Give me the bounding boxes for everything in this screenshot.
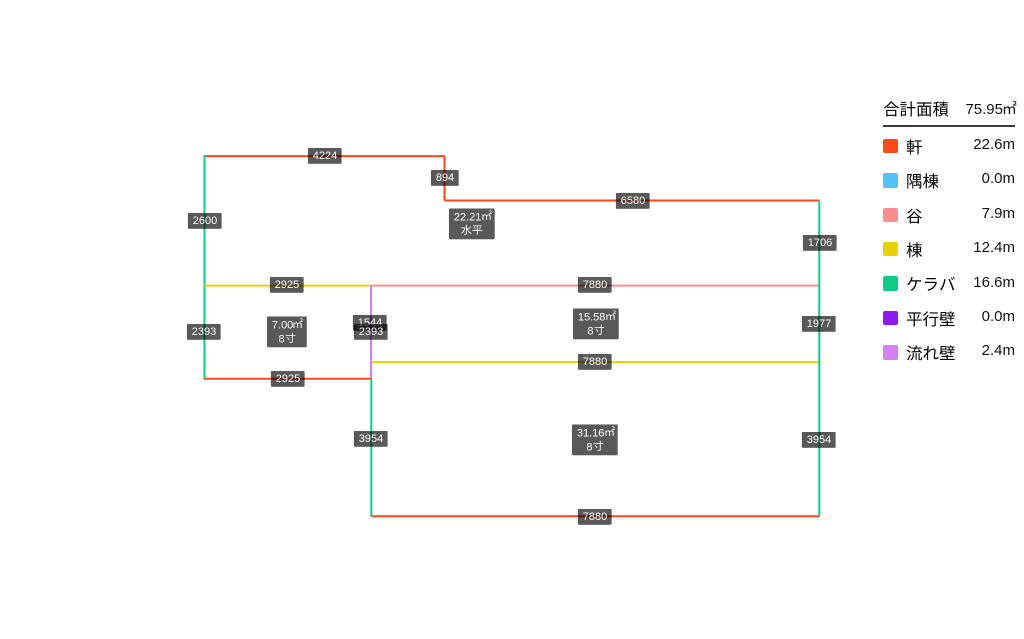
wire valley 7880 <box>371 285 819 287</box>
legend header title 合計面積 (total area) <box>883 101 949 120</box>
legend value 流れ壁 2.4m <box>982 342 1015 359</box>
label 894 <box>431 170 459 186</box>
wire flow-wall 1544 <box>370 286 372 379</box>
legend swatch 隅棟 <box>883 173 898 188</box>
label area 22.21 horizontal <box>449 208 495 239</box>
legend value 谷 7.9m <box>982 205 1015 222</box>
label area 31.16 8-sun <box>572 424 618 455</box>
hidden glyph outline definitions (CJK text rendered as vector paths) <box>0 0 1 1</box>
label 7880 ridge <box>578 353 612 369</box>
legend swatch 流れ壁 <box>883 345 898 360</box>
label 7880 bottom <box>578 509 612 525</box>
legend label 平行壁 <box>906 311 956 330</box>
label 4224 <box>308 148 342 164</box>
label 1544 <box>353 315 387 331</box>
legend value 隅棟 0.0m <box>982 170 1015 187</box>
wire gable mid 3954 <box>370 379 372 517</box>
legend label 軒 <box>906 139 923 158</box>
label 2393 mid <box>353 324 387 340</box>
legend divider <box>883 125 1015 127</box>
legend swatch 谷 <box>883 208 898 223</box>
wire eave top-left 4224 <box>205 155 445 157</box>
legend label 谷 <box>906 208 923 227</box>
label area 7.00 8-sun <box>267 316 307 347</box>
label 6580 <box>616 193 650 209</box>
wire ridge 2925 <box>205 285 372 287</box>
wire ridge 7880 <box>372 361 819 363</box>
wire eave 2925 lower-left <box>205 378 372 380</box>
label 2925 lower <box>270 370 304 386</box>
label 2393 left <box>187 324 221 340</box>
legend value 平行壁 0.0m <box>982 308 1015 325</box>
label 1977 <box>802 316 836 332</box>
label 1706 <box>802 235 836 251</box>
label 2925 upper <box>270 277 304 293</box>
wire gable right 1706+1977+3954 <box>818 201 820 517</box>
label 7880 valley <box>578 277 612 293</box>
legend value 軒 22.6m <box>973 136 1015 153</box>
legend header value 75.95 m2 <box>965 101 1015 118</box>
legend label 棟 <box>906 242 923 261</box>
legend swatch 棟 <box>883 242 898 257</box>
wire eave step 894 <box>444 156 446 200</box>
label 3954 left <box>354 431 388 447</box>
legend swatch 軒 <box>883 139 898 154</box>
label 3954 right <box>801 432 835 448</box>
legend label ケラバ <box>906 276 956 295</box>
wire gable left 2600+2393 <box>204 155 206 380</box>
wire eave bottom 7880 <box>371 515 819 517</box>
label area 15.58 8-sun <box>573 308 619 339</box>
label 2600 <box>187 213 221 229</box>
legend swatch ケラバ <box>883 276 898 291</box>
wire eave top 6580 <box>445 200 820 202</box>
legend label 隅棟 <box>906 173 939 192</box>
legend value ケラバ 16.6m <box>973 274 1015 291</box>
legend label 流れ壁 <box>906 345 956 364</box>
legend value 棟 12.4m <box>973 239 1015 256</box>
legend swatch 平行壁 <box>883 311 898 326</box>
